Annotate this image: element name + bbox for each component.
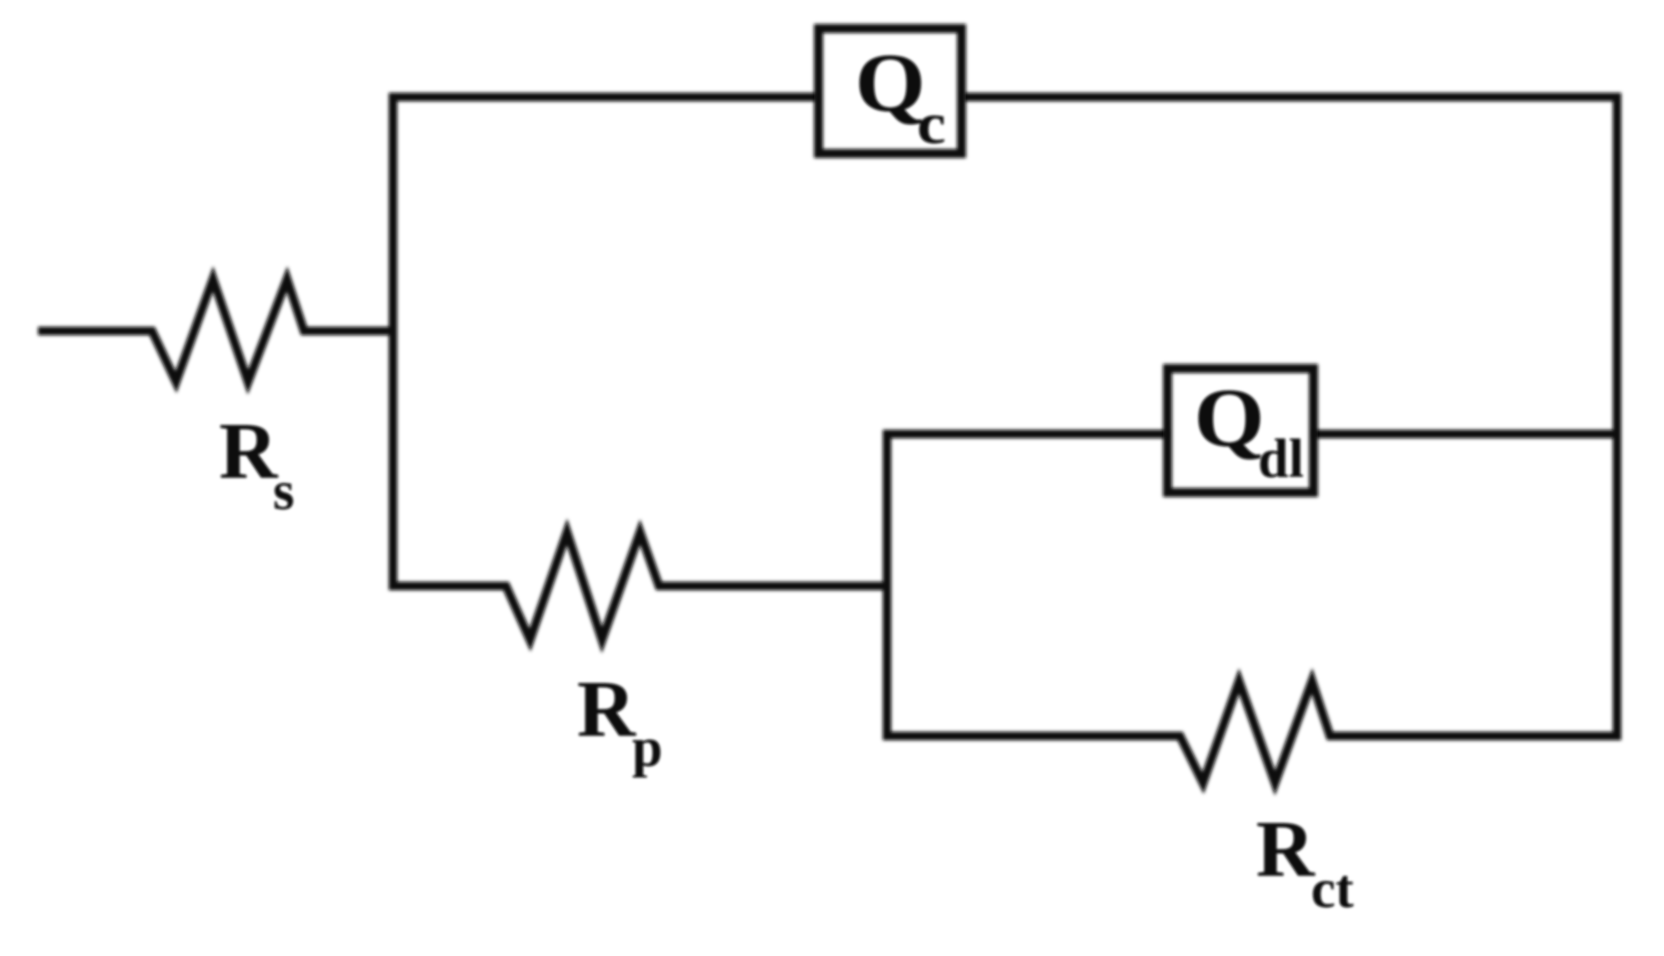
svg-text:p: p [632, 717, 663, 778]
svg-text:s: s [273, 460, 294, 521]
svg-text:R: R [577, 664, 637, 754]
svg-text:ct: ct [1311, 858, 1354, 919]
svg-text:R: R [1256, 804, 1316, 894]
svg-text:c: c [917, 92, 946, 156]
svg-text:dl: dl [1258, 428, 1304, 489]
svg-text:Q: Q [1194, 371, 1265, 464]
svg-text:Q: Q [855, 36, 926, 129]
svg-text:R: R [219, 406, 279, 496]
